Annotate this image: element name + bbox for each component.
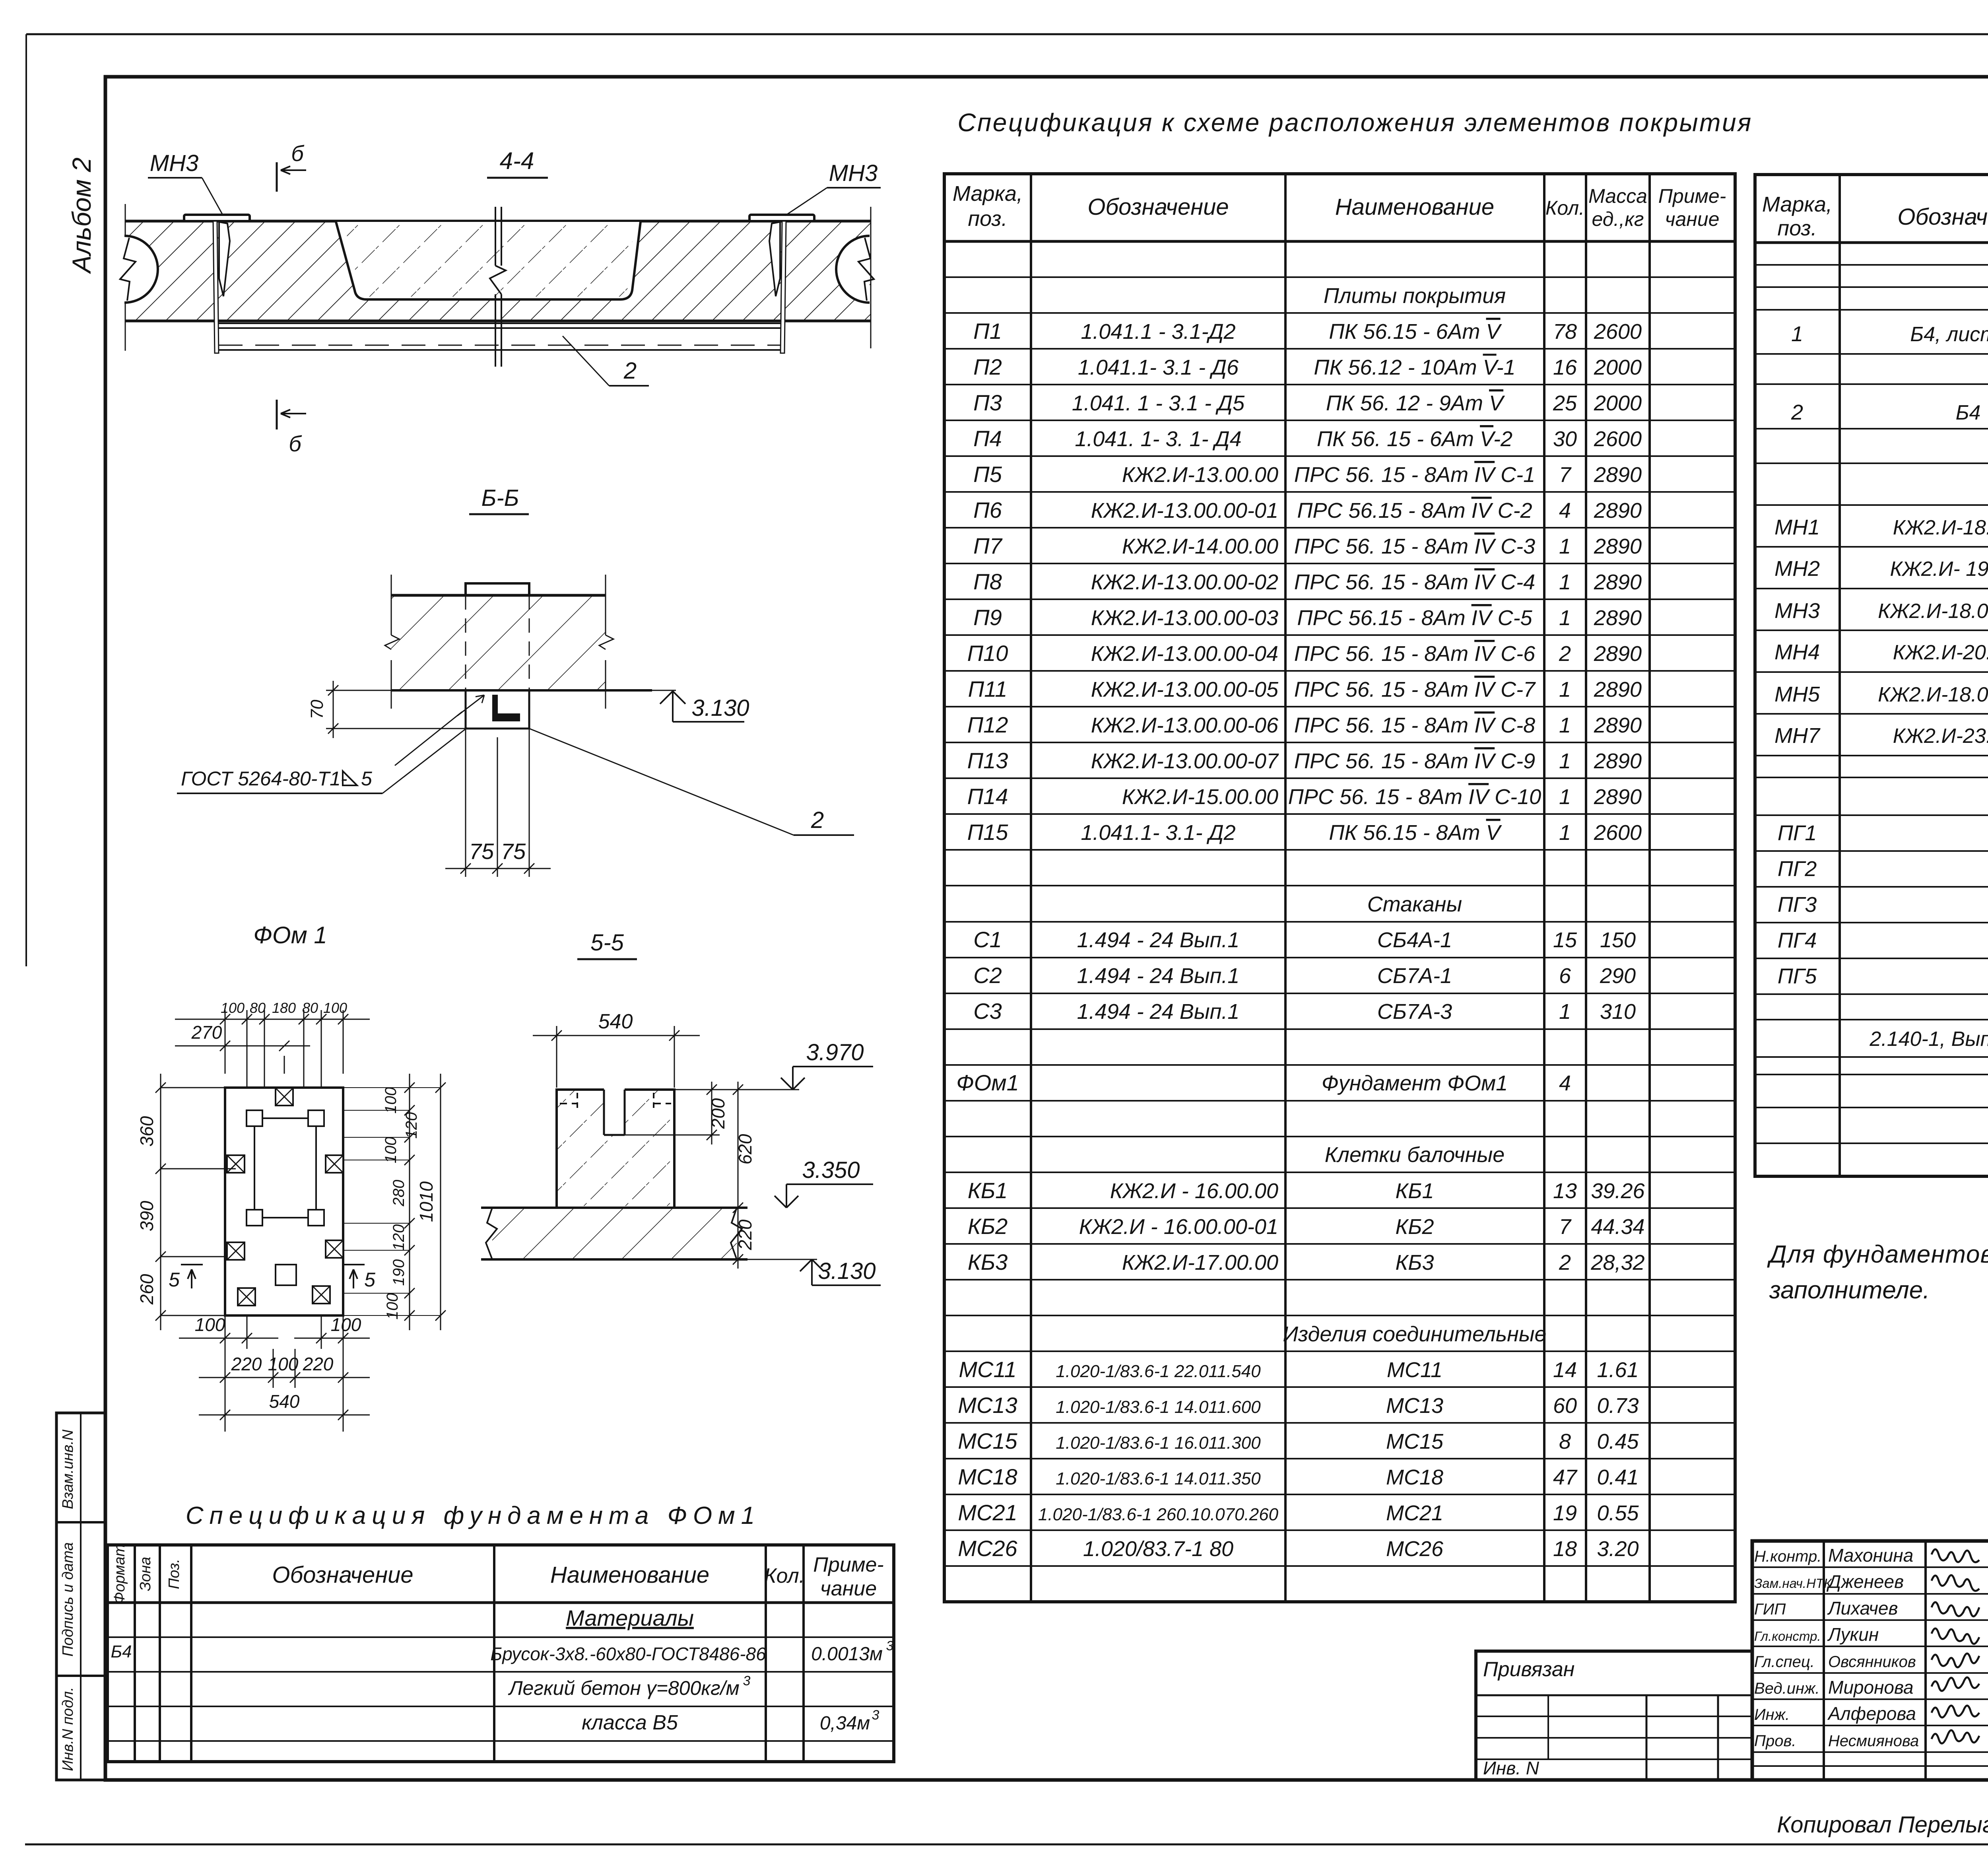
svg-text:ПГ2: ПГ2 bbox=[1778, 857, 1817, 881]
svg-text:ПК 56.15 - 8Ат V: ПК 56.15 - 8Ат V bbox=[1329, 821, 1502, 845]
svg-text:Кол.: Кол. bbox=[1545, 197, 1584, 219]
plan top dimension chain bbox=[225, 1010, 226, 1074]
svg-text:Взам.инв.N: Взам.инв.N bbox=[60, 1429, 76, 1509]
svg-text:180: 180 bbox=[272, 1000, 296, 1016]
svg-text:МС21: МС21 bbox=[1386, 1501, 1443, 1525]
svg-text:Брусок-3х8.-60х80-ГОСТ8486-86: Брусок-3х8.-60х80-ГОСТ8486-86 bbox=[490, 1644, 766, 1664]
svg-text:ГИП: ГИП bbox=[1754, 1601, 1786, 1618]
svg-text:1.020-1/83.6-1 14.011.350: 1.020-1/83.6-1 14.011.350 bbox=[1056, 1469, 1261, 1488]
svg-text:ПРС 56. 15 - 8Ат IV С-6: ПРС 56. 15 - 8Ат IV С-6 bbox=[1294, 642, 1536, 666]
plan left dimension chain bbox=[161, 1087, 225, 1088]
svg-text:80: 80 bbox=[302, 1000, 318, 1016]
svg-text:1.494 - 24 Вып.1: 1.494 - 24 Вып.1 bbox=[1077, 964, 1240, 988]
svg-text:Зам.нач.НТК: Зам.нач.НТК bbox=[1754, 1576, 1832, 1591]
svg-text:КЖ2.И-13.00.00-01: КЖ2.И-13.00.00-01 bbox=[1091, 499, 1278, 523]
svg-text:44.34: 44.34 bbox=[1591, 1215, 1644, 1239]
svg-text:МН3: МН3 bbox=[150, 150, 198, 176]
svg-text:5: 5 bbox=[364, 1269, 375, 1291]
svg-text:1: 1 bbox=[1559, 713, 1571, 737]
svg-text:1.494 - 24 Вып.1: 1.494 - 24 Вып.1 bbox=[1077, 928, 1240, 952]
svg-text:1.494 - 24 Вып.1: 1.494 - 24 Вып.1 bbox=[1077, 1000, 1240, 1024]
svg-text:КЖ2.И - 16.00.00-01: КЖ2.И - 16.00.00-01 bbox=[1079, 1215, 1278, 1239]
svg-text:19: 19 bbox=[1553, 1501, 1577, 1525]
svg-text:0.55: 0.55 bbox=[1597, 1501, 1639, 1525]
svg-text:220: 220 bbox=[735, 1219, 755, 1250]
svg-text:60: 60 bbox=[1553, 1394, 1577, 1418]
svg-text:4: 4 bbox=[1559, 499, 1571, 523]
svg-text:КЖ2.И-13.00.00-06: КЖ2.И-13.00.00-06 bbox=[1091, 713, 1279, 737]
svg-text:1010: 1010 bbox=[416, 1181, 437, 1222]
dimension 540 (5-5) bbox=[556, 1026, 557, 1088]
svg-text:3.130: 3.130 bbox=[691, 695, 749, 721]
svg-text:310: 310 bbox=[1600, 1000, 1636, 1024]
svg-text:МС11: МС11 bbox=[1387, 1358, 1442, 1382]
svg-text:2890: 2890 bbox=[1594, 678, 1642, 701]
svg-text:Обозначение: Обозначение bbox=[272, 1562, 413, 1588]
anchor mark mid left bbox=[227, 1155, 245, 1173]
svg-text:1.020-1/83.6-1 260.10.070.260: 1.020-1/83.6-1 260.10.070.260 bbox=[1038, 1505, 1279, 1524]
svg-text:360: 360 bbox=[136, 1116, 157, 1146]
svg-text:1: 1 bbox=[1559, 606, 1571, 630]
svg-text:2890: 2890 bbox=[1594, 785, 1642, 809]
svg-text:П13: П13 bbox=[967, 748, 1008, 773]
central table outer bbox=[944, 174, 1735, 1602]
plan right dimension chain bbox=[409, 1074, 410, 1330]
svg-text:МС26: МС26 bbox=[1386, 1537, 1444, 1561]
svg-text:СБ7А-1: СБ7А-1 bbox=[1377, 964, 1452, 988]
beam lines below slab bbox=[219, 323, 780, 324]
svg-text:2: 2 bbox=[811, 807, 824, 833]
svg-text:Б4: Б4 bbox=[1956, 401, 1981, 424]
svg-text:2000: 2000 bbox=[1594, 391, 1642, 415]
svg-text:Дженеев: Дженеев bbox=[1826, 1571, 1904, 1592]
svg-text:Масса: Масса bbox=[1588, 185, 1647, 207]
anchor mark top centre bbox=[276, 1088, 293, 1106]
elevation 3.130 (5-5) bbox=[800, 1259, 881, 1285]
svg-text:70: 70 bbox=[307, 699, 327, 719]
right table rows bbox=[1755, 264, 1988, 266]
svg-text:3: 3 bbox=[886, 1638, 894, 1653]
Б-Б lower box with angle bbox=[466, 690, 529, 729]
svg-text:ПК 56.12 - 10Ат V-1: ПК 56.12 - 10Ат V-1 bbox=[1314, 356, 1515, 379]
svg-text:Инв. N: Инв. N bbox=[1483, 1758, 1540, 1778]
svg-text:ПГ3: ПГ3 bbox=[1778, 893, 1817, 917]
svg-text:5: 5 bbox=[169, 1269, 180, 1291]
svg-text:П15: П15 bbox=[967, 820, 1009, 845]
svg-text:ПРС 56.15 - 8Ат IV С-5: ПРС 56.15 - 8Ат IV С-5 bbox=[1297, 606, 1532, 630]
svg-text:100: 100 bbox=[331, 1314, 361, 1335]
svg-text:620: 620 bbox=[735, 1134, 755, 1164]
svg-text:Марка,: Марка, bbox=[1762, 192, 1832, 216]
svg-text:КБ2: КБ2 bbox=[968, 1214, 1008, 1239]
svg-text:Стаканы: Стаканы bbox=[1367, 892, 1462, 916]
svg-text:КЖ2.И-18.00.00: КЖ2.И-18.00.00 bbox=[1893, 516, 1988, 539]
svg-text:П3: П3 bbox=[973, 390, 1002, 415]
svg-text:Н.контр.: Н.контр. bbox=[1754, 1548, 1821, 1565]
anchor mark low right bbox=[326, 1240, 343, 1258]
svg-text:Изделия соединительные: Изделия соединительные bbox=[1283, 1322, 1546, 1346]
svg-text:ПГ1: ПГ1 bbox=[1778, 821, 1817, 845]
svg-text:47: 47 bbox=[1553, 1465, 1578, 1489]
svg-text:5: 5 bbox=[361, 767, 372, 790]
svg-text:П14: П14 bbox=[967, 784, 1008, 809]
svg-text:200: 200 bbox=[708, 1098, 728, 1129]
svg-text:540: 540 bbox=[269, 1391, 300, 1412]
title block outline bbox=[1752, 1541, 1988, 1780]
svg-text:1: 1 bbox=[1559, 785, 1571, 809]
dimension 70 (Б-Б) bbox=[326, 690, 466, 691]
channel trough in slab bbox=[336, 222, 641, 299]
svg-text:МС18: МС18 bbox=[1386, 1465, 1443, 1489]
svg-text:16: 16 bbox=[1553, 356, 1577, 379]
svg-text:КЖ2.И-23.00.00: КЖ2.И-23.00.00 bbox=[1893, 725, 1988, 748]
svg-text:класса В5: класса В5 bbox=[582, 1711, 678, 1734]
embedded plate MH3 right bbox=[749, 215, 814, 221]
section mark b bottom bbox=[276, 400, 278, 429]
anchor mark low left bbox=[227, 1242, 245, 1260]
svg-text:0.73: 0.73 bbox=[1597, 1394, 1639, 1418]
svg-text:100: 100 bbox=[221, 1000, 245, 1016]
svg-text:Формат: Формат bbox=[111, 1544, 128, 1604]
svg-text:КЖ2.И-13.00.00-02: КЖ2.И-13.00.00-02 bbox=[1091, 570, 1278, 594]
svg-text:Зона: Зона bbox=[137, 1557, 154, 1591]
anchor mark bottom right bbox=[313, 1286, 330, 1304]
svg-text:100: 100 bbox=[195, 1314, 225, 1335]
svg-text:2: 2 bbox=[1559, 1251, 1571, 1275]
svg-text:3.20: 3.20 bbox=[1597, 1537, 1639, 1561]
svg-text:1.041.1- 3.1 - Д6: 1.041.1- 3.1 - Д6 bbox=[1078, 356, 1239, 379]
svg-text:1: 1 bbox=[1791, 322, 1803, 346]
svg-text:Материалы: Материалы bbox=[566, 1605, 694, 1630]
svg-text:ПРС 56. 15 - 8Ат IV С-8: ПРС 56. 15 - 8Ат IV С-8 bbox=[1294, 713, 1535, 737]
svg-text:ПГ4: ПГ4 bbox=[1778, 929, 1817, 952]
svg-text:390: 390 bbox=[136, 1201, 157, 1231]
svg-text:Спецификация к схеме располо: Спецификация к схеме расположения элемен… bbox=[957, 108, 1752, 137]
svg-text:2.140-1, Вып. 1 л. 13: 2.140-1, Вып. 1 л. 13 bbox=[1869, 1028, 1988, 1051]
svg-text:Приме-: Приме- bbox=[813, 1553, 883, 1576]
svg-text:1: 1 bbox=[1559, 1000, 1571, 1024]
svg-text:ПРС 56. 15 - 8Ат IV С-1: ПРС 56. 15 - 8Ат IV С-1 bbox=[1294, 463, 1535, 487]
svg-text:30: 30 bbox=[1553, 427, 1577, 451]
Б-Б slab hatched bbox=[391, 595, 606, 690]
svg-text:КБ3: КБ3 bbox=[968, 1249, 1008, 1275]
section mark b top bbox=[276, 162, 278, 192]
svg-text:КЖ2.И-18.00.00-01: КЖ2.И-18.00.00-01 bbox=[1878, 600, 1988, 623]
svg-text:Овсянников: Овсянников bbox=[1828, 1653, 1916, 1671]
svg-text:120: 120 bbox=[403, 1112, 420, 1139]
svg-text:0.45: 0.45 bbox=[1597, 1430, 1639, 1453]
svg-text:КБ3: КБ3 bbox=[1395, 1251, 1434, 1275]
svg-text:КЖ2.И-15.00.00: КЖ2.И-15.00.00 bbox=[1122, 785, 1278, 809]
svg-text:100: 100 bbox=[268, 1354, 299, 1374]
svg-text:МС26: МС26 bbox=[958, 1536, 1017, 1561]
svg-text:ПРС 56. 15 - 8Ат IV С-9: ПРС 56. 15 - 8Ат IV С-9 bbox=[1294, 749, 1535, 773]
svg-text:Вед.инж.: Вед.инж. bbox=[1754, 1680, 1820, 1697]
svg-text:540: 540 bbox=[598, 1010, 633, 1033]
svg-text:КЖ2.И-13.00.00-05: КЖ2.И-13.00.00-05 bbox=[1091, 678, 1279, 701]
svg-text:2890: 2890 bbox=[1594, 642, 1642, 666]
svg-text:МН3: МН3 bbox=[829, 160, 878, 186]
svg-text:Марка,: Марка, bbox=[953, 182, 1023, 206]
svg-text:С3: С3 bbox=[973, 999, 1002, 1024]
svg-text:Копировал Перелыгина: Копировал Перелыгина bbox=[1777, 1812, 1988, 1838]
svg-text:МС18: МС18 bbox=[958, 1464, 1017, 1489]
svg-text:7: 7 bbox=[1559, 1215, 1572, 1239]
svg-text:Подпись и дата: Подпись и дата bbox=[60, 1542, 76, 1656]
hollow core half-circle left with break bbox=[124, 236, 158, 303]
svg-text:1.020-1/83.6-1 14.011.600: 1.020-1/83.6-1 14.011.600 bbox=[1056, 1397, 1261, 1417]
left sidebar strip bbox=[56, 1413, 105, 1780]
svg-text:3.130: 3.130 bbox=[818, 1258, 876, 1284]
svg-text:Махонина: Махонина bbox=[1828, 1545, 1913, 1566]
svg-text:МС13: МС13 bbox=[1386, 1394, 1443, 1418]
svg-text:7: 7 bbox=[1559, 463, 1572, 487]
svg-text:1.020-1/83.6-1 22.011.540: 1.020-1/83.6-1 22.011.540 bbox=[1056, 1362, 1261, 1381]
svg-text:4-4: 4-4 bbox=[500, 148, 534, 174]
svg-text:ПРС 56. 15 - 8Ат IV С-3: ПРС 56. 15 - 8Ат IV С-3 bbox=[1294, 534, 1535, 558]
svg-text:80: 80 bbox=[250, 1000, 266, 1016]
svg-text:Алферова: Алферова bbox=[1827, 1703, 1916, 1724]
svg-text:1: 1 bbox=[1559, 534, 1571, 558]
svg-text:2600: 2600 bbox=[1594, 320, 1642, 344]
svg-text:П8: П8 bbox=[973, 569, 1002, 594]
section mark 5 left bbox=[181, 1264, 203, 1265]
svg-text:1.020/83.7-1 80: 1.020/83.7-1 80 bbox=[1083, 1537, 1233, 1561]
svg-text:Инж.: Инж. bbox=[1754, 1706, 1790, 1723]
plan inner cavity outline bbox=[254, 1118, 316, 1218]
hollow core half-circle right with break bbox=[836, 236, 870, 303]
svg-text:КЖ2.И-13.00.00-04: КЖ2.И-13.00.00-04 bbox=[1091, 642, 1278, 666]
svg-text:1.61: 1.61 bbox=[1597, 1358, 1639, 1382]
svg-text:4: 4 bbox=[1559, 1071, 1571, 1095]
svg-text:б: б bbox=[289, 431, 302, 456]
svg-text:МН7: МН7 bbox=[1774, 724, 1821, 748]
svg-text:1: 1 bbox=[1559, 678, 1571, 701]
svg-text:1.041. 1 - 3.1 - Д5: 1.041. 1 - 3.1 - Д5 bbox=[1072, 391, 1245, 415]
svg-text:15: 15 bbox=[1553, 928, 1577, 952]
svg-text:3: 3 bbox=[872, 1708, 879, 1723]
svg-text:ПГ5: ПГ5 bbox=[1778, 964, 1817, 988]
svg-text:2: 2 bbox=[1791, 400, 1803, 424]
slab end extension lines bbox=[125, 204, 126, 351]
centre break lines bbox=[495, 207, 496, 266]
svg-text:П5: П5 bbox=[973, 462, 1002, 487]
central table rows bbox=[944, 276, 1735, 278]
svg-text:поз.: поз. bbox=[1777, 216, 1817, 240]
privyazan box bbox=[1476, 1651, 1752, 1780]
anchor mark mid right bbox=[326, 1155, 343, 1173]
svg-text:2890: 2890 bbox=[1594, 606, 1642, 630]
svg-text:ПК 56. 15 - 6Ат V-2: ПК 56. 15 - 6Ат V-2 bbox=[1317, 427, 1512, 451]
svg-text:2890: 2890 bbox=[1594, 713, 1642, 737]
svg-text:Обозначение: Обозначение bbox=[1897, 204, 1988, 230]
svg-text:6: 6 bbox=[1559, 964, 1571, 988]
svg-text:3: 3 bbox=[743, 1673, 751, 1688]
svg-text:ПРС 56. 15 - 8Ат IV С-10: ПРС 56. 15 - 8Ат IV С-10 bbox=[1288, 785, 1541, 809]
leader arrow to angle bbox=[395, 712, 462, 766]
svg-text:чание: чание bbox=[1665, 208, 1720, 230]
svg-text:2600: 2600 bbox=[1594, 427, 1642, 451]
svg-text:1.041.1 - 3.1-Д2: 1.041.1 - 3.1-Д2 bbox=[1081, 320, 1235, 344]
svg-text:75: 75 bbox=[469, 839, 494, 864]
svg-text:Поз.: Поз. bbox=[166, 1559, 182, 1589]
Б-Б anchor dashed outlines bbox=[465, 595, 466, 690]
svg-text:Лихачев: Лихачев bbox=[1827, 1598, 1898, 1619]
svg-text:1: 1 bbox=[1559, 749, 1571, 773]
svg-text:МН2: МН2 bbox=[1774, 557, 1820, 581]
slab section 4-4 hatched body bbox=[125, 221, 871, 321]
svg-text:Клетки балочные: Клетки балочные bbox=[1325, 1143, 1505, 1167]
svg-text:ПРС 56.15 - 8Ат IV С-2: ПРС 56.15 - 8Ат IV С-2 bbox=[1297, 499, 1532, 523]
svg-text:2890: 2890 bbox=[1594, 749, 1642, 773]
svg-text:ПРС 56. 15 - 8Ат IV С-4: ПРС 56. 15 - 8Ат IV С-4 bbox=[1294, 570, 1535, 594]
svg-text:ед.,кг: ед.,кг bbox=[1592, 208, 1644, 230]
svg-text:Легкий бетон γ=800кг/м: Легкий бетон γ=800кг/м bbox=[508, 1677, 740, 1699]
svg-text:Гл.спец.: Гл.спец. bbox=[1754, 1653, 1815, 1671]
svg-text:КБ2: КБ2 bbox=[1395, 1215, 1434, 1239]
svg-text:КЖ2.И-14.00.00: КЖ2.И-14.00.00 bbox=[1122, 534, 1278, 558]
svg-text:5-5: 5-5 bbox=[590, 930, 624, 956]
svg-text:Для фундаментов ФОм1 принять л: Для фундаментов ФОм1 принять легкий бето… bbox=[1767, 1241, 1988, 1268]
svg-text:П6: П6 bbox=[973, 497, 1002, 523]
svg-text:КБ1: КБ1 bbox=[968, 1178, 1008, 1203]
Б-Б embedded plate MH3 bbox=[466, 583, 529, 595]
svg-text:ПРС 56. 15 - 8Ат IV С-7: ПРС 56. 15 - 8Ат IV С-7 bbox=[1294, 678, 1536, 701]
svg-text:39.26: 39.26 bbox=[1591, 1179, 1645, 1203]
svg-text:100: 100 bbox=[382, 1087, 400, 1114]
svg-text:3.350: 3.350 bbox=[802, 1157, 860, 1183]
Б-Б slab extension lines with breaks bbox=[391, 575, 392, 635]
elevation 3.970 bbox=[781, 1067, 873, 1090]
svg-text:270: 270 bbox=[191, 1022, 222, 1043]
svg-text:МН5: МН5 bbox=[1774, 682, 1820, 706]
svg-text:П1: П1 bbox=[973, 319, 1002, 344]
svg-text:1.020-1/83.6-1 16.011.300: 1.020-1/83.6-1 16.011.300 bbox=[1056, 1433, 1261, 1453]
svg-text:КЖ2.И - 16.00.00: КЖ2.И - 16.00.00 bbox=[1110, 1179, 1278, 1203]
svg-text:1: 1 bbox=[1559, 570, 1571, 594]
page outer border left line bbox=[25, 34, 27, 966]
svg-text:Спецификация фундамента ФОм1: Спецификация фундамента ФОм1 bbox=[186, 1502, 761, 1529]
svg-text:Б-Б: Б-Б bbox=[481, 485, 519, 511]
dimension 200 620 220 (5-5) bbox=[625, 1135, 720, 1136]
svg-text:Привязан: Привязан bbox=[1483, 1658, 1574, 1681]
svg-text:2600: 2600 bbox=[1594, 821, 1642, 845]
svg-text:Миронова: Миронова bbox=[1828, 1677, 1914, 1698]
plan dimension 270 bbox=[199, 1045, 310, 1047]
svg-text:Фундамент ФОм1: Фундамент ФОм1 bbox=[1322, 1071, 1508, 1095]
svg-text:П4: П4 bbox=[973, 426, 1002, 451]
svg-text:78: 78 bbox=[1553, 320, 1577, 344]
svg-text:Наименование: Наименование bbox=[1335, 194, 1494, 220]
svg-text:КБ1: КБ1 bbox=[1395, 1179, 1434, 1203]
anchor pin below left plate bbox=[213, 221, 219, 353]
plan dimension 1010 bbox=[440, 1074, 441, 1330]
svg-text:Альбом 2: Альбом 2 bbox=[67, 157, 96, 274]
signature table bbox=[1823, 1541, 1825, 1780]
svg-text:КЖ2.И-17.00.00: КЖ2.И-17.00.00 bbox=[1122, 1251, 1278, 1275]
svg-text:ГОСТ 5264-80-Т1-: ГОСТ 5264-80-Т1- bbox=[181, 767, 347, 790]
svg-text:8: 8 bbox=[1559, 1430, 1571, 1453]
svg-text:Наименование: Наименование bbox=[550, 1562, 709, 1588]
svg-text:260: 260 bbox=[136, 1274, 157, 1305]
svg-text:П11: П11 bbox=[968, 676, 1008, 701]
svg-text:2890: 2890 bbox=[1594, 534, 1642, 558]
corner plates of cavity bbox=[247, 1110, 262, 1126]
svg-text:Кол.: Кол. bbox=[764, 1564, 805, 1587]
svg-text:МС15: МС15 bbox=[958, 1428, 1017, 1453]
elevation 3.350 bbox=[775, 1184, 873, 1208]
svg-text:18: 18 bbox=[1553, 1537, 1577, 1561]
svg-text:280: 280 bbox=[390, 1180, 408, 1207]
svg-text:0,34м: 0,34м bbox=[820, 1713, 870, 1734]
svg-text:П9: П9 bbox=[973, 605, 1002, 630]
svg-text:МН1: МН1 bbox=[1774, 515, 1820, 539]
svg-text:КЖ2.И- 19.00.00: КЖ2.И- 19.00.00 bbox=[1890, 558, 1988, 581]
svg-text:75: 75 bbox=[501, 839, 526, 864]
elevation mark 3.130 (Б-Б) bbox=[660, 691, 744, 722]
svg-text:1: 1 bbox=[1559, 821, 1571, 845]
svg-text:Лукин: Лукин bbox=[1827, 1624, 1879, 1645]
plan outer outline bbox=[225, 1088, 343, 1315]
svg-text:КЖ2.И-13.00.00-03: КЖ2.И-13.00.00-03 bbox=[1091, 606, 1278, 630]
svg-text:ПК 56. 12 - 9Ат V: ПК 56. 12 - 9Ат V bbox=[1326, 391, 1505, 415]
dimension 75 75 (Б-Б) bbox=[465, 729, 466, 877]
svg-text:МС13: МС13 bbox=[958, 1393, 1017, 1418]
svg-text:0.41: 0.41 bbox=[1597, 1465, 1639, 1489]
svg-text:КЖ2.И-13.00.00-07: КЖ2.И-13.00.00-07 bbox=[1091, 749, 1279, 773]
svg-text:МН4: МН4 bbox=[1774, 640, 1820, 664]
svg-text:2000: 2000 bbox=[1594, 356, 1642, 379]
svg-text:МС15: МС15 bbox=[1386, 1430, 1444, 1453]
svg-text:150: 150 bbox=[1600, 928, 1636, 952]
anchor pin below right plate bbox=[780, 221, 786, 353]
right table outer bbox=[1755, 175, 1988, 1176]
svg-text:ФОм 1: ФОм 1 bbox=[253, 922, 327, 948]
svg-text:СБ7А-3: СБ7А-3 bbox=[1377, 1000, 1452, 1024]
svg-text:поз.: поз. bbox=[968, 207, 1007, 231]
svg-text:Инв.N подл.: Инв.N подл. bbox=[60, 1687, 76, 1771]
svg-text:Обозначение: Обозначение bbox=[1087, 194, 1229, 220]
page outer border top line bbox=[26, 33, 1988, 35]
svg-text:П7: П7 bbox=[973, 533, 1003, 558]
svg-text:КЖ2.И-18.00.00-02: КЖ2.И-18.00.00-02 bbox=[1878, 683, 1988, 706]
bottom centre plate bbox=[276, 1265, 296, 1285]
pedestal hatched (5-5) bbox=[557, 1090, 674, 1208]
svg-text:Несмиянова: Несмиянова bbox=[1828, 1732, 1919, 1750]
embedded plate MH3 left bbox=[184, 215, 250, 221]
svg-text:25: 25 bbox=[1553, 391, 1577, 415]
svg-text:СБ4А-1: СБ4А-1 bbox=[1377, 928, 1452, 952]
svg-text:100: 100 bbox=[382, 1137, 400, 1164]
svg-text:2: 2 bbox=[1559, 642, 1571, 666]
svg-text:14: 14 bbox=[1553, 1358, 1577, 1382]
svg-text:КЖ2.И-20.00.00: КЖ2.И-20.00.00 bbox=[1893, 641, 1988, 664]
plan bottom dimension chains bbox=[225, 1315, 226, 1432]
svg-text:0.0013м: 0.0013м bbox=[811, 1644, 883, 1665]
section mark 5 right bbox=[343, 1264, 365, 1265]
svg-text:2890: 2890 bbox=[1594, 463, 1642, 487]
svg-text:чание: чание bbox=[820, 1577, 877, 1600]
svg-text:КЖ2.И-13.00.00: КЖ2.И-13.00.00 bbox=[1122, 463, 1278, 487]
svg-text:МС21: МС21 bbox=[958, 1500, 1017, 1525]
svg-text:Гл.констр.: Гл.констр. bbox=[1754, 1629, 1821, 1644]
svg-text:МС11: МС11 bbox=[959, 1357, 1016, 1382]
svg-text:П2: П2 bbox=[973, 354, 1002, 379]
socket notch bbox=[604, 1088, 625, 1135]
anchor mark bottom left bbox=[238, 1288, 255, 1306]
svg-text:заполнителе.: заполнителе. bbox=[1769, 1277, 1930, 1304]
svg-text:Приме-: Приме- bbox=[1658, 185, 1726, 207]
